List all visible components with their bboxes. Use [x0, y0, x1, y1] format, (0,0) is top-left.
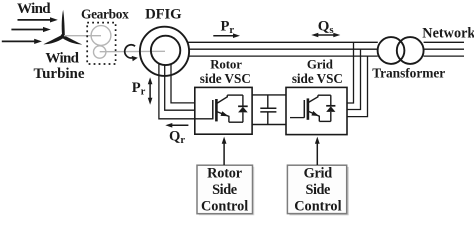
IGBT Q1 (rotor-side): gate lead — [195, 118, 213, 120]
wind arrow 1 — [18, 17, 58, 22]
gearbox gear wheel (small) — [94, 46, 106, 58]
DC link wire bottom — [252, 124, 286, 126]
IGBT Q1 collector lead — [217, 95, 228, 103]
rotor-side bottom rail — [229, 121, 243, 123]
IGBT Q1 emitter lead with arrow — [217, 111, 229, 122]
label Qr — [169, 129, 185, 146]
diode D2 (grid-side, antiparallel) — [326, 95, 335, 121]
grid-side VSC box — [286, 87, 347, 134]
label Pr (rotor) — [132, 80, 146, 97]
diode D1 (rotor-side, antiparallel) — [238, 95, 248, 122]
svg-text:Grid: Grid — [307, 58, 334, 72]
IGBT Q1 gate bar — [212, 100, 214, 119]
grid wire a (GSC to bus) — [347, 42, 354, 103]
rotor wire c — [171, 64, 195, 103]
network feeder wire middle — [424, 48, 464, 50]
svg-text:Side: Side — [305, 182, 330, 198]
IGBT Q2 body bar — [307, 98, 310, 119]
svg-text:side VSC: side VSC — [200, 71, 251, 86]
gearbox gear wheel (large) — [91, 26, 111, 46]
network feeder wire top — [424, 41, 464, 43]
label Grid side VSC — [292, 58, 343, 87]
wind arrow 2 — [11, 27, 50, 32]
svg-text:Gearbox: Gearbox — [81, 6, 129, 21]
wind arrow 3 — [2, 39, 42, 44]
DC link wire top — [252, 94, 286, 96]
label Network — [422, 26, 474, 42]
IGBT Q2 gate bar — [303, 100, 305, 118]
grid-side top rail — [318, 94, 331, 96]
svg-text:Transformer: Transformer — [372, 66, 445, 81]
svg-text:Turbine: Turbine — [34, 66, 85, 82]
grid wire b — [347, 49, 361, 109]
stator bus wire bottom — [189, 55, 378, 57]
svg-text:Rotor: Rotor — [210, 58, 242, 72]
transformer (right winding) — [397, 37, 424, 64]
label Pr (top) — [221, 19, 235, 36]
arrow Pr rotor (double-headed vertical) — [148, 77, 153, 105]
grid-side bottom rail — [319, 120, 331, 122]
arrow rotor control to RSC — [222, 137, 227, 165]
rotor-side VSC box — [195, 87, 252, 134]
rotor-side top rail — [227, 94, 243, 96]
svg-text:DFIG: DFIG — [145, 7, 182, 23]
svg-text:Control: Control — [201, 198, 248, 214]
grid wire c — [347, 56, 368, 117]
label Wind (under turbine) — [45, 50, 79, 66]
label Turbine — [34, 66, 85, 82]
arrow Qs (double-headed) — [311, 33, 340, 38]
svg-text:Network: Network — [422, 26, 474, 42]
capacitor C (DC link) — [260, 95, 276, 125]
label Wind (top-left) — [17, 1, 51, 17]
IGBT Q1 body bar — [215, 99, 218, 121]
gearbox dotted enclosure — [87, 23, 115, 64]
IGBT Q2 emitter lead with arrow — [308, 111, 319, 122]
rotor wire a (DFIG to RSC) — [159, 64, 195, 119]
label Gearbox — [81, 6, 129, 21]
svg-text:Control: Control — [294, 198, 341, 214]
wind turbine rotor blades — [43, 10, 82, 45]
svg-text:Rotor: Rotor — [207, 166, 243, 182]
rotor side control box — [197, 165, 254, 215]
stator bus wire middle — [189, 48, 378, 50]
network feeder wire bottom — [424, 55, 464, 57]
svg-text:Side: Side — [212, 182, 237, 198]
shaft gearbox-to-DFIG — [100, 50, 165, 52]
svg-text:side VSC: side VSC — [292, 71, 343, 86]
shaft turbine-to-gearbox — [64, 35, 101, 37]
label DFIG — [145, 7, 182, 23]
stator bus wire top — [187, 41, 378, 43]
label Transformer — [372, 66, 445, 81]
svg-text:Wind: Wind — [45, 50, 79, 66]
label Rotor side VSC — [200, 58, 251, 87]
IGBT Q2 (grid-side): gate lead — [290, 117, 304, 119]
grid side control box — [287, 165, 348, 215]
DFIG rotor (inner circle) — [151, 36, 180, 65]
DFIG machine (outer stator circle) — [140, 27, 189, 76]
svg-text:Grid: Grid — [304, 166, 333, 182]
IGBT Q2 collector lead — [308, 95, 318, 102]
svg-text:Wind: Wind — [17, 1, 51, 17]
arrow Qr flow (left) — [165, 123, 188, 128]
arrow Pr flow — [213, 33, 240, 38]
transformer (left winding) — [378, 37, 405, 64]
rotor wire b — [165, 65, 195, 110]
arrow grid control to GSC — [315, 137, 320, 165]
label Qs — [318, 18, 334, 35]
rotation arrow on shaft — [125, 45, 138, 61]
